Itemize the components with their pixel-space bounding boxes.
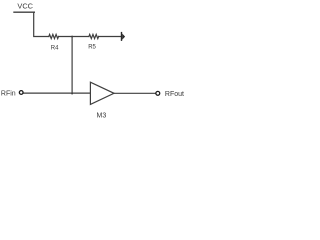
svg-text:RFin: RFin (1, 90, 16, 97)
VCC power rail bar (14, 11, 34, 13)
svg-text:RFout: RFout (165, 91, 184, 98)
amplifier M3 triangle (90, 82, 114, 104)
svg-text:M3: M3 (97, 112, 107, 119)
wire R4 to R5 (59, 36, 89, 38)
off-page port arrow (122, 34, 125, 40)
svg-text:R4: R4 (51, 45, 59, 51)
resistor R4 (49, 34, 59, 38)
wire junction node to amp input (71, 37, 73, 94)
off-page port bar (121, 32, 122, 41)
terminal RFout (156, 91, 160, 95)
wire amp output to RFout terminal (114, 92, 155, 94)
svg-text:VCC: VCC (17, 1, 33, 10)
wire RFin terminal to amp (24, 92, 91, 94)
junction dot bottom (71, 92, 73, 94)
svg-text:R5: R5 (88, 45, 96, 51)
resistor R5 (89, 34, 99, 38)
wire VCC bar down to top rail (34, 12, 49, 36)
wire R5 to port bar (99, 36, 121, 38)
junction dot top (71, 36, 73, 38)
terminal RFin (19, 91, 23, 95)
